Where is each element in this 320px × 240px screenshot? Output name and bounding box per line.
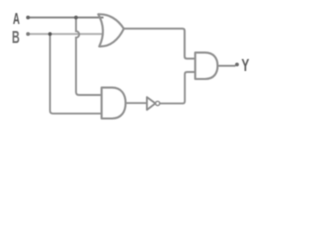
svg-text:B: B [12,29,20,48]
terminal dot Y [235,63,239,67]
terminal dot A [26,16,30,20]
and-gate U2 (A AND B) [102,88,126,119]
wire OR output to AND2 top input [123,29,195,59]
junction on A branch [74,16,78,20]
wire AND2 output to Y [217,65,235,67]
wire A branch down with hop over B [76,18,102,96]
junction on B branch [48,32,52,36]
wire B branch down [50,34,102,114]
inverter U3 bubble [156,101,160,105]
wire AND1 output to inverter [125,102,147,104]
inverter U3 triangle [147,97,156,110]
wire A horizontal [28,17,104,19]
and-gate U4 (output AND) [195,53,217,79]
wire B horizontal [28,33,104,35]
svg-text:Y: Y [241,56,249,76]
wire inverter output to AND2 bottom input [160,72,196,103]
or-gate U1 (A OR B) [98,14,124,46]
svg-text:A: A [13,9,20,27]
terminal dot B [26,32,30,36]
